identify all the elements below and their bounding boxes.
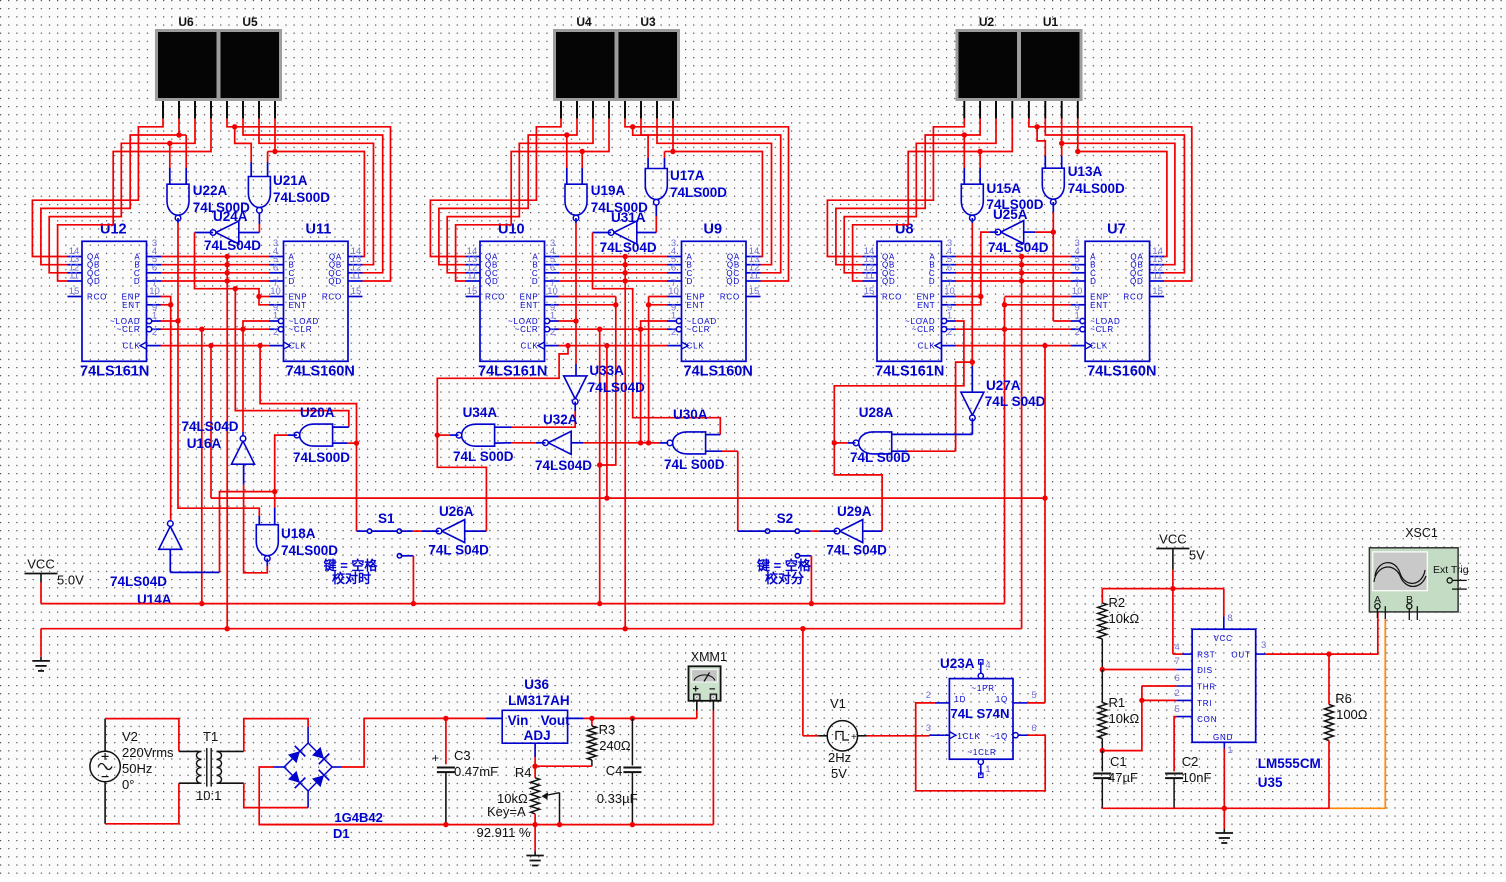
svg-text:11: 11 bbox=[351, 271, 361, 282]
svg-text:S2: S2 bbox=[777, 511, 794, 526]
svg-text:U8: U8 bbox=[895, 221, 914, 237]
wire DIS bbox=[1100, 667, 1177, 672]
wire Vin rail bbox=[443, 716, 502, 721]
svg-text:~CLR: ~CLR bbox=[515, 325, 539, 334]
svg-text:D: D bbox=[929, 277, 936, 286]
svg-text:V2: V2 bbox=[122, 729, 138, 744]
wire OUT net bbox=[1265, 651, 1331, 656]
svg-text:74LS00D: 74LS00D bbox=[281, 543, 338, 558]
wire display pin4 to U10.QD bbox=[456, 119, 609, 281]
svg-text:CON: CON bbox=[1197, 715, 1217, 724]
inverter U25A bbox=[988, 221, 1049, 255]
wire U13A.out net bbox=[1051, 202, 1071, 321]
svg-text:RCO: RCO bbox=[485, 293, 505, 302]
wire display pin6 to U7.QC bbox=[1045, 119, 1184, 273]
wire ground to rail2 bbox=[40, 629, 42, 657]
svg-text:U18A: U18A bbox=[281, 526, 316, 541]
wire V2 bottom bbox=[105, 782, 199, 824]
wire T1 secondary top to bridge bbox=[217, 719, 309, 752]
svg-text:6: 6 bbox=[1031, 723, 1036, 734]
wire U17A input A bbox=[630, 124, 648, 168]
svg-text:C3: C3 bbox=[454, 748, 471, 763]
svg-text:10kΩ: 10kΩ bbox=[1109, 711, 1140, 726]
wire U19A.out to U10.~LOAD and U33A.in bbox=[559, 218, 579, 376]
wire T1 secondary bottom to bridge bbox=[217, 783, 309, 807]
svg-text:1CLK: 1CLK bbox=[957, 732, 980, 741]
svg-text:10:1: 10:1 bbox=[196, 788, 221, 803]
wire display pin8 to U7.QA bbox=[1078, 119, 1167, 257]
wire U31A.out net bbox=[593, 233, 721, 435]
wire U24A.out net bbox=[195, 233, 239, 292]
svg-text:U33A: U33A bbox=[589, 363, 624, 378]
wire U28A.in2 bbox=[892, 450, 956, 452]
svg-text:RCO: RCO bbox=[720, 293, 740, 302]
wire U26A.out to S1 bbox=[402, 530, 439, 532]
wire U30A.in1 stub bbox=[706, 434, 721, 436]
svg-text:CLK: CLK bbox=[123, 342, 141, 351]
svg-text:+: + bbox=[432, 751, 439, 765]
nand U30A (points left) bbox=[664, 407, 725, 472]
svg-text:U5: U5 bbox=[242, 15, 258, 29]
wire U25A.out to U8 ENP/ENT bbox=[956, 232, 999, 305]
inverter U31A bbox=[600, 210, 657, 255]
svg-text:6: 6 bbox=[947, 262, 952, 273]
svg-text:U30A: U30A bbox=[673, 407, 708, 422]
svg-text:U3: U3 bbox=[640, 15, 656, 29]
wire VCC split bbox=[1102, 589, 1224, 617]
svg-text:74L S04D: 74L S04D bbox=[988, 240, 1049, 255]
wire U22A input A (QC tap) bbox=[167, 141, 172, 185]
svg-text:1Q: 1Q bbox=[996, 695, 1008, 704]
wire U21A input A bbox=[232, 124, 251, 176]
svg-text:Vin: Vin bbox=[508, 713, 529, 728]
svg-text:~1CLR: ~1CLR bbox=[967, 748, 996, 757]
svg-text:ADJ: ADJ bbox=[524, 728, 551, 743]
wire A-D common to GND rail bbox=[623, 254, 628, 632]
svg-text:1: 1 bbox=[152, 311, 157, 322]
svg-text:11: 11 bbox=[864, 271, 874, 282]
wire CON to C2 bbox=[1174, 717, 1176, 772]
svg-text:U31A: U31A bbox=[611, 210, 646, 225]
svg-text:2: 2 bbox=[926, 690, 931, 701]
svg-text:U17A: U17A bbox=[670, 168, 705, 183]
svg-text:~1PR: ~1PR bbox=[971, 684, 994, 693]
resistor R2 bbox=[1098, 589, 1140, 670]
inverter U27A bbox=[961, 378, 1046, 421]
wire display pin1 to U10.QA bbox=[430, 119, 561, 257]
svg-text:10: 10 bbox=[149, 286, 160, 297]
svg-text:5V: 5V bbox=[831, 766, 847, 781]
svg-text:U19A: U19A bbox=[591, 183, 626, 198]
wire U34A.out net bbox=[435, 346, 568, 531]
svg-text:0.47mF: 0.47mF bbox=[454, 764, 498, 779]
rail GND bottom (power) bbox=[259, 824, 713, 826]
svg-text:74LS04D: 74LS04D bbox=[588, 380, 645, 395]
svg-text:U14A: U14A bbox=[137, 592, 172, 607]
svg-text:2: 2 bbox=[152, 327, 157, 338]
wire U27A.out to U28A.in1 bbox=[892, 418, 973, 434]
wire mid CLK row bbox=[559, 343, 668, 501]
svg-text:2: 2 bbox=[550, 327, 555, 338]
svg-text:OUT: OUT bbox=[1231, 651, 1250, 660]
svg-text:U6: U6 bbox=[178, 15, 194, 29]
svg-text:15: 15 bbox=[1152, 286, 1163, 297]
svg-text:ENT: ENT bbox=[520, 301, 538, 310]
wires A-D data rows bbox=[161, 257, 269, 282]
wire U21A.out to U24A.in bbox=[239, 213, 260, 233]
svg-text:~CLR: ~CLR bbox=[1090, 325, 1114, 334]
svg-text:5: 5 bbox=[1031, 690, 1036, 701]
svg-text:~1Q: ~1Q bbox=[990, 732, 1008, 741]
nand U21A bbox=[248, 173, 330, 213]
svg-text:+: + bbox=[851, 732, 857, 743]
svg-text:4: 4 bbox=[985, 660, 990, 671]
svg-text:RCO: RCO bbox=[882, 293, 902, 302]
svg-text:15: 15 bbox=[864, 286, 875, 297]
wire U20A.in1 stub bbox=[333, 426, 349, 428]
wire RST bbox=[1173, 653, 1183, 655]
svg-text:Vout: Vout bbox=[541, 713, 570, 728]
wire Vout rail bbox=[568, 716, 697, 721]
svg-text:2Hz: 2Hz bbox=[828, 750, 851, 765]
wire U18A.out to U16A.in bbox=[244, 464, 268, 572]
svg-text:QD: QD bbox=[1130, 277, 1144, 286]
nand U19A bbox=[565, 183, 648, 221]
wire A-D common from GND rail (right) bbox=[1019, 254, 1024, 629]
svg-text:QD: QD bbox=[882, 277, 896, 286]
svg-text:6: 6 bbox=[1074, 262, 1079, 273]
wire display pin6 to U11.QC bbox=[243, 119, 383, 273]
svg-text:10: 10 bbox=[1072, 286, 1083, 297]
wire U15A input B bbox=[977, 149, 982, 184]
svg-text:10nF: 10nF bbox=[1182, 770, 1212, 785]
svg-text:U32A: U32A bbox=[543, 412, 578, 427]
svg-text:1: 1 bbox=[550, 311, 555, 322]
nand U22A bbox=[167, 183, 250, 221]
svg-text:11: 11 bbox=[69, 271, 79, 282]
svg-text:15: 15 bbox=[749, 286, 760, 297]
wire display pin4 to U8.QD bbox=[853, 119, 1013, 281]
nand U17A bbox=[645, 168, 727, 205]
svg-text:~CLR: ~CLR bbox=[117, 325, 141, 334]
svg-text:Ext Trig: Ext Trig bbox=[1433, 564, 1469, 576]
svg-text:校对时: 校对时 bbox=[332, 571, 371, 586]
svg-text:U20A: U20A bbox=[300, 405, 335, 420]
svg-text:1: 1 bbox=[671, 311, 676, 322]
wire U15A.out net bbox=[956, 218, 975, 451]
wire U22A input B bbox=[176, 132, 186, 184]
svg-text:U15A: U15A bbox=[987, 181, 1022, 196]
flip-flop U23A 74LS74N bbox=[926, 656, 1037, 778]
svg-text:RCO: RCO bbox=[1123, 293, 1143, 302]
rail2 GND distribution bbox=[41, 628, 1022, 630]
resistor R1 bbox=[1098, 670, 1140, 751]
wire U21A input B bbox=[268, 149, 278, 177]
svg-text:15: 15 bbox=[351, 286, 362, 297]
potentiometer R4 bbox=[477, 765, 563, 840]
wire U29A.in from U28A bbox=[863, 530, 882, 532]
svg-text:RCO: RCO bbox=[87, 293, 107, 302]
svg-text:4: 4 bbox=[1174, 642, 1179, 653]
wire S2 lower throw to VCC rail bbox=[809, 556, 814, 607]
multimeter XMM1 bbox=[689, 650, 727, 701]
inverter U26A bbox=[428, 504, 489, 558]
regulator U36 LM317AH bbox=[502, 677, 570, 743]
wire VCC 555 bbox=[1170, 558, 1175, 655]
svg-text:7: 7 bbox=[1174, 656, 1179, 667]
svg-text:74LS00D: 74LS00D bbox=[670, 185, 727, 200]
VCC symbol (555) bbox=[1156, 532, 1205, 563]
wire 555 GND pin to ground bbox=[1223, 749, 1225, 830]
wire right CLK row bbox=[956, 343, 1071, 348]
wire U15A input A bbox=[962, 132, 967, 184]
wire A-D common to GND rail bbox=[225, 254, 230, 632]
svg-text:R3: R3 bbox=[599, 722, 616, 737]
svg-text:T1: T1 bbox=[203, 729, 218, 744]
svg-text:U23A: U23A bbox=[940, 656, 975, 671]
wire U19A input B bbox=[580, 149, 585, 184]
svg-text:U34A: U34A bbox=[463, 405, 498, 420]
svg-text:VCC: VCC bbox=[27, 557, 54, 572]
svg-text:DIS: DIS bbox=[1197, 666, 1213, 675]
counter U7 bbox=[1071, 221, 1165, 379]
wire U9 ENP/ENT tie bbox=[646, 297, 668, 446]
svg-text:U2: U2 bbox=[979, 15, 995, 29]
wire U20A.out net bbox=[170, 435, 297, 572]
svg-text:74LS00D: 74LS00D bbox=[293, 450, 350, 465]
svg-text:QD: QD bbox=[726, 277, 740, 286]
svg-text:10kΩ: 10kΩ bbox=[1109, 611, 1140, 626]
resistor R6 bbox=[1325, 654, 1368, 808]
svg-text:2: 2 bbox=[273, 327, 278, 338]
display U6 / U5 bbox=[155, 15, 282, 101]
display U4 / U3 bbox=[553, 15, 680, 101]
display pins (black stubs) bbox=[561, 101, 673, 119]
svg-text:74LS04D: 74LS04D bbox=[204, 238, 261, 253]
svg-text:TRI: TRI bbox=[1197, 699, 1212, 708]
svg-text:92.911 %: 92.911 % bbox=[477, 825, 531, 840]
svg-text:QD: QD bbox=[485, 277, 499, 286]
svg-text:ENT: ENT bbox=[289, 301, 307, 310]
wire V1 left to GND rail bbox=[800, 626, 827, 736]
svg-text:U22A: U22A bbox=[193, 183, 228, 198]
wire U32A.out to U34A.in2 bbox=[495, 442, 546, 444]
wire U20A.in2 bbox=[333, 442, 357, 444]
svg-text:U9: U9 bbox=[704, 221, 723, 237]
wire U23A feedback ~1Q to 1D bbox=[916, 703, 1045, 791]
rail1 VCC distribution bbox=[41, 603, 1005, 605]
counter U10 bbox=[466, 221, 560, 379]
nand U28A (points left) bbox=[850, 405, 911, 465]
wire V1 right to U23A.CLK bbox=[858, 734, 945, 737]
svg-text:8: 8 bbox=[1227, 613, 1232, 624]
wire U13A input A bbox=[1034, 124, 1045, 168]
label key S1 bbox=[323, 558, 379, 586]
svg-text:74LS161N: 74LS161N bbox=[80, 363, 149, 379]
svg-text:XSC1: XSC1 bbox=[1405, 526, 1438, 540]
svg-text:LM555CM: LM555CM bbox=[1258, 756, 1321, 771]
wire U25A.in bbox=[1024, 231, 1054, 233]
svg-text:1: 1 bbox=[947, 311, 952, 322]
wire U33A.out to U34A.in1 bbox=[495, 402, 576, 428]
svg-text:240Ω: 240Ω bbox=[599, 738, 631, 753]
svg-text:RST: RST bbox=[1197, 651, 1215, 660]
svg-text:U4: U4 bbox=[576, 15, 592, 29]
svg-text:1: 1 bbox=[1227, 745, 1232, 756]
svg-text:0.33µF: 0.33µF bbox=[597, 791, 638, 806]
wire bridge left to GND rail bbox=[259, 767, 446, 825]
svg-text:R2: R2 bbox=[1109, 595, 1126, 610]
svg-text:CLK: CLK bbox=[918, 342, 936, 351]
svg-text:U36: U36 bbox=[524, 677, 549, 692]
svg-text:C4: C4 bbox=[606, 763, 623, 778]
wire ~CLR net bbox=[161, 321, 270, 606]
svg-text:QD: QD bbox=[87, 277, 101, 286]
svg-text:11: 11 bbox=[749, 271, 759, 282]
svg-text:D1: D1 bbox=[333, 826, 350, 841]
svg-text:D: D bbox=[687, 277, 694, 286]
svg-text:R1: R1 bbox=[1109, 695, 1126, 710]
nand U34A (points left) bbox=[453, 405, 514, 464]
wire display pin5 to U7.QD bbox=[1029, 119, 1192, 281]
svg-text:校对分: 校对分 bbox=[765, 571, 804, 586]
wires A-D data rows right bbox=[956, 257, 1071, 282]
wire U19A input A bbox=[564, 132, 569, 184]
wire mid ~CLR net bbox=[559, 321, 668, 606]
svg-text:VCC: VCC bbox=[1213, 634, 1232, 643]
svg-text:THR: THR bbox=[1197, 683, 1216, 692]
svg-text:U11: U11 bbox=[306, 221, 332, 237]
svg-text:74L S04D: 74L S04D bbox=[826, 543, 887, 558]
svg-text:RCO: RCO bbox=[322, 293, 342, 302]
source V2 bbox=[90, 729, 174, 792]
svg-text:11: 11 bbox=[1153, 271, 1163, 282]
svg-text:C2: C2 bbox=[1182, 754, 1199, 769]
capacitor C1 bbox=[1093, 751, 1138, 809]
wire display pin3 to U8.QC bbox=[844, 119, 996, 273]
nand U15A bbox=[961, 181, 1043, 222]
inverter U29A bbox=[826, 504, 887, 558]
svg-text:6: 6 bbox=[550, 262, 555, 273]
wire U7 ENP/ENT from VCC riser bbox=[1005, 297, 1071, 305]
svg-text:74LS04D: 74LS04D bbox=[600, 240, 657, 255]
wire display pin2 to U10.QB bbox=[439, 119, 577, 265]
inverter U32A bbox=[535, 412, 592, 473]
wire display pin5 to U11.QD bbox=[227, 119, 391, 281]
display U2 / U1 bbox=[956, 15, 1083, 101]
svg-text:47µF: 47µF bbox=[1108, 770, 1138, 785]
wire OUT to scope A bbox=[1329, 609, 1378, 655]
svg-text:0°: 0° bbox=[122, 777, 134, 792]
switch S1 bbox=[357, 511, 414, 558]
wire display pin3 to U12.QC bbox=[49, 119, 195, 273]
svg-text:10: 10 bbox=[547, 286, 558, 297]
svg-text:VCC: VCC bbox=[1159, 532, 1186, 547]
wire display pin1 to U12.QA bbox=[32, 119, 163, 257]
wire U12.ENP/ENT from U14A bbox=[161, 297, 174, 520]
svg-text:D: D bbox=[134, 277, 141, 286]
nand U13A bbox=[1042, 164, 1125, 205]
svg-text:XMM1: XMM1 bbox=[691, 650, 727, 664]
wire U17A.out to U31A.in bbox=[637, 205, 657, 233]
wire display pin4 to U12.QD bbox=[58, 119, 211, 281]
svg-text:74L S04D: 74L S04D bbox=[428, 543, 489, 558]
svg-text:ENT: ENT bbox=[687, 301, 705, 310]
svg-text:74LS160N: 74LS160N bbox=[286, 363, 355, 379]
svg-text:ENT: ENT bbox=[122, 301, 140, 310]
capacitor C2 bbox=[1165, 754, 1211, 808]
wire display pin5 to U9.QD bbox=[625, 119, 789, 281]
wire scope ground (orange) bbox=[1330, 619, 1386, 808]
svg-text:2: 2 bbox=[671, 327, 676, 338]
counter U8 bbox=[863, 221, 957, 379]
svg-text:~CLR: ~CLR bbox=[289, 325, 313, 334]
svg-text:U13A: U13A bbox=[1068, 164, 1103, 179]
svg-text:10: 10 bbox=[270, 286, 281, 297]
inverter U14A bbox=[110, 521, 182, 607]
wire U23A 1Q to clock net bbox=[1028, 346, 1046, 703]
wire U24A net to U20A.in1 bbox=[235, 289, 348, 427]
svg-text:74L S00D: 74L S00D bbox=[850, 450, 911, 465]
svg-text:5.0V: 5.0V bbox=[57, 573, 84, 588]
svg-text:1G4B42: 1G4B42 bbox=[334, 810, 382, 825]
svg-text:6: 6 bbox=[1174, 673, 1179, 684]
wire V2 top bbox=[105, 719, 199, 752]
svg-text:5: 5 bbox=[1174, 704, 1179, 715]
svg-text:10: 10 bbox=[944, 286, 955, 297]
wire display pin2 to U8.QB bbox=[836, 119, 980, 265]
wire display pin7 to U9.QB bbox=[657, 119, 772, 265]
wire display pin8 to U9.QA bbox=[673, 119, 762, 257]
svg-text:74L S04D: 74L S04D bbox=[985, 394, 1046, 409]
svg-text:3: 3 bbox=[926, 723, 931, 734]
svg-text:U28A: U28A bbox=[859, 405, 894, 420]
svg-text:U16A: U16A bbox=[187, 436, 222, 451]
svg-text:1D: 1D bbox=[954, 695, 966, 704]
wire U29A.out to S2 bbox=[800, 530, 837, 532]
wires A-D data rows bbox=[559, 257, 667, 282]
svg-text:Key=A: Key=A bbox=[487, 804, 526, 819]
inverter U16A bbox=[182, 419, 255, 464]
wire U32A.in net bbox=[571, 440, 643, 445]
wire bridge right to Vin rail bbox=[332, 718, 446, 767]
source V1 bbox=[827, 696, 857, 781]
svg-text:5V: 5V bbox=[1189, 548, 1205, 563]
oscilloscope XSC1 bbox=[1369, 526, 1468, 620]
svg-text:QD: QD bbox=[328, 277, 342, 286]
label key S2 bbox=[756, 558, 812, 586]
svg-text:74LS161N: 74LS161N bbox=[875, 363, 944, 379]
resistor R3 bbox=[587, 718, 630, 766]
svg-text:74LS160N: 74LS160N bbox=[1087, 363, 1156, 379]
svg-text:U1: U1 bbox=[1043, 15, 1059, 29]
svg-text:U27A: U27A bbox=[986, 378, 1021, 393]
counter U9 bbox=[667, 221, 761, 379]
rail GND (555) bbox=[1102, 806, 1330, 811]
svg-text:74L S74N: 74L S74N bbox=[950, 706, 1009, 721]
svg-text:CLK: CLK bbox=[687, 342, 705, 351]
svg-text:6: 6 bbox=[273, 262, 278, 273]
wire U30A.out bbox=[641, 442, 669, 444]
display pins pair3 (black stubs) bbox=[964, 101, 1078, 119]
capacitor C4 bbox=[597, 718, 642, 827]
svg-text:ENT: ENT bbox=[917, 301, 935, 310]
wire U10 ENP/ENT tie bbox=[559, 297, 619, 468]
transformer T1 bbox=[196, 729, 222, 803]
svg-text:74LS161N: 74LS161N bbox=[478, 363, 547, 379]
svg-text:ENT: ENT bbox=[1090, 301, 1108, 310]
wire ADJ node bbox=[532, 743, 592, 769]
